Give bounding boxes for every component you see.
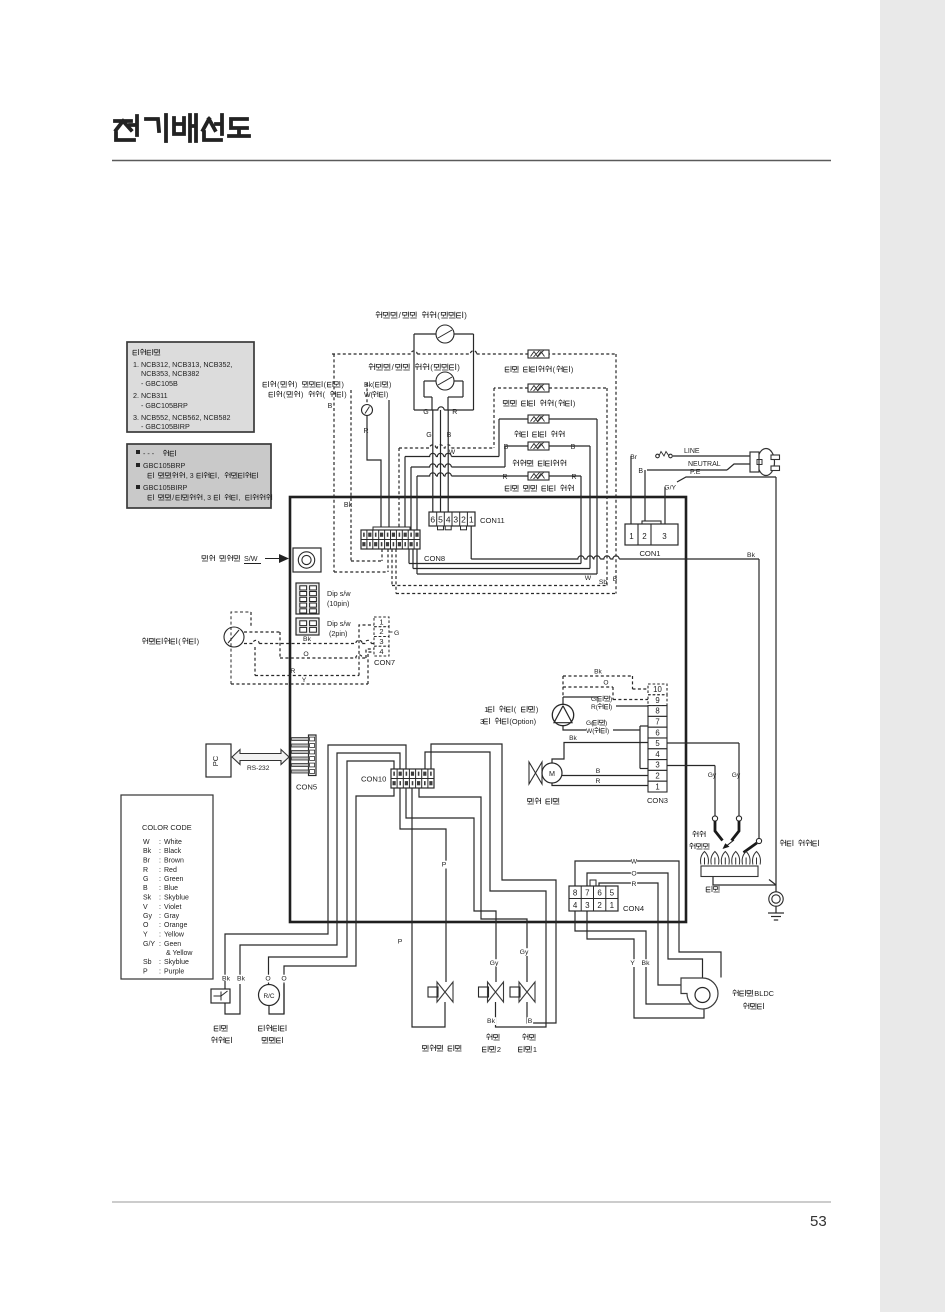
svg-text:G/Y: G/Y (664, 485, 676, 492)
svg-text:Dip s/w: Dip s/w (327, 619, 351, 628)
svg-text:): ) (573, 399, 575, 408)
svg-text:Violet: Violet (164, 904, 181, 911)
svg-text:Gy: Gy (143, 913, 152, 920)
svg-text:S/W: S/W (244, 554, 258, 563)
svg-text:4: 4 (446, 515, 451, 525)
svg-text:Br: Br (630, 454, 638, 461)
svg-text:(Option): (Option) (509, 717, 536, 726)
svg-text:10: 10 (653, 685, 662, 694)
svg-text:1: 1 (469, 515, 474, 525)
svg-text:Gy: Gy (490, 960, 499, 967)
svg-text:3: 3 (453, 515, 458, 525)
svg-text:Sk: Sk (143, 895, 152, 902)
svg-text:Bk: Bk (303, 636, 312, 643)
svg-text:B: B (143, 885, 148, 892)
svg-text:NCB353, NCB382: NCB353, NCB382 (141, 369, 199, 378)
svg-text:2: 2 (655, 772, 659, 781)
svg-text:GBC105BRP: GBC105BRP (143, 461, 186, 470)
svg-text:): ) (344, 390, 346, 399)
svg-text:- - -: - - - (143, 449, 155, 458)
svg-text:3. NCB552, NCB562, NCB582: 3. NCB552, NCB562, NCB582 (133, 413, 230, 422)
svg-text:Orange: Orange (164, 922, 187, 929)
svg-text:- GBC105BIRP: - GBC105BIRP (141, 422, 190, 431)
svg-text:9: 9 (655, 696, 659, 705)
svg-text:3: 3 (585, 901, 590, 910)
svg-text:P: P (442, 862, 447, 869)
svg-text:): ) (386, 392, 388, 399)
svg-text:Bk: Bk (487, 1018, 496, 1025)
svg-text:P.E: P.E (690, 469, 701, 476)
svg-text::: : (159, 904, 161, 911)
svg-text:(2pin): (2pin) (329, 629, 347, 638)
svg-text:/: / (172, 495, 174, 502)
svg-text:1: 1 (629, 532, 634, 541)
svg-text:): ) (571, 365, 573, 374)
svg-text:P: P (143, 969, 148, 976)
svg-text::: : (159, 913, 161, 920)
svg-text:CON10: CON10 (361, 775, 386, 784)
svg-text:): ) (295, 380, 297, 389)
svg-text:R: R (291, 668, 296, 675)
svg-text:Gray: Gray (164, 913, 180, 920)
svg-text:6: 6 (597, 889, 602, 898)
svg-text:,: , (238, 495, 240, 502)
svg-text:O: O (281, 976, 286, 983)
svg-text:- GBC105BRP: - GBC105BRP (141, 401, 188, 410)
svg-text:5: 5 (655, 739, 660, 748)
svg-text:Brown: Brown (164, 858, 184, 865)
svg-text:B: B (504, 444, 509, 451)
svg-text:2. NCB311: 2. NCB311 (133, 391, 168, 400)
svg-text:COLOR CODE: COLOR CODE (142, 823, 192, 832)
svg-text:BLDC: BLDC (754, 989, 774, 998)
svg-text:Y: Y (630, 960, 635, 967)
svg-text:B: B (528, 1018, 533, 1025)
svg-text:B: B (613, 576, 618, 583)
svg-text:NEUTRAL: NEUTRAL (688, 461, 721, 468)
svg-text:Green: Green (164, 876, 184, 883)
svg-text:W: W (449, 449, 456, 456)
svg-text:G: G (394, 630, 399, 637)
svg-text:5: 5 (438, 515, 443, 525)
svg-text:1: 1 (484, 705, 488, 714)
svg-text:Bk: Bk (143, 848, 152, 855)
svg-text:Y: Y (302, 677, 307, 684)
svg-text::: : (159, 876, 161, 883)
svg-text:R: R (596, 778, 601, 785)
svg-text:& Yellow: & Yellow (166, 950, 193, 957)
svg-text:G: G (426, 432, 431, 439)
svg-text:R(: R( (591, 704, 599, 711)
svg-text:Gy: Gy (520, 949, 529, 956)
svg-text:B: B (638, 468, 643, 475)
svg-text:): ) (197, 637, 199, 646)
svg-text:3: 3 (379, 637, 383, 646)
svg-text:1: 1 (533, 1045, 537, 1054)
svg-text:Bk: Bk (642, 960, 651, 967)
svg-text:4: 4 (655, 750, 660, 759)
svg-text:): ) (389, 382, 391, 389)
svg-text:4: 4 (379, 647, 383, 656)
svg-text:Skyblue: Skyblue (164, 895, 189, 902)
svg-text:7: 7 (585, 889, 590, 898)
svg-text:Br: Br (143, 858, 151, 865)
svg-text:W: W (585, 575, 592, 582)
svg-text:Bk: Bk (594, 669, 602, 676)
svg-text:R: R (571, 474, 576, 481)
svg-text:, 3: , 3 (203, 495, 211, 502)
svg-text:CON4: CON4 (623, 904, 644, 913)
svg-text:Gy: Gy (732, 772, 741, 779)
svg-text:R/C: R/C (263, 993, 274, 1000)
svg-text:G/Y: G/Y (143, 941, 155, 948)
svg-text:CON1: CON1 (639, 549, 660, 558)
svg-text:): ) (536, 705, 538, 714)
svg-text:R: R (363, 428, 368, 435)
svg-text::: : (159, 895, 161, 902)
svg-text:Black: Black (164, 848, 182, 855)
svg-text:PC: PC (211, 755, 220, 766)
svg-text::: : (159, 969, 161, 976)
svg-text:,: , (217, 473, 219, 480)
svg-text:CON3: CON3 (647, 796, 668, 805)
svg-text:M: M (549, 769, 555, 778)
svg-text:): ) (342, 380, 344, 389)
svg-text:): ) (607, 728, 609, 735)
svg-text:RS-232: RS-232 (247, 765, 270, 772)
svg-text:3: 3 (655, 761, 659, 770)
svg-text:Sb: Sb (599, 579, 608, 586)
svg-text:B: B (447, 432, 452, 439)
svg-text:G: G (143, 876, 148, 883)
svg-text:G: G (423, 409, 428, 416)
svg-text:8: 8 (655, 707, 659, 716)
svg-text::: : (159, 867, 161, 874)
svg-text:B: B (596, 768, 601, 775)
svg-text:Bk: Bk (222, 976, 231, 983)
svg-text:R: R (502, 474, 507, 481)
svg-text:Y: Y (143, 932, 148, 939)
svg-text:O: O (143, 922, 149, 929)
svg-text:R: R (143, 867, 148, 874)
svg-text:2: 2 (597, 901, 602, 910)
svg-text:): ) (610, 696, 612, 703)
svg-text:2: 2 (379, 627, 383, 636)
svg-text:Red: Red (164, 867, 177, 874)
svg-text:O: O (265, 976, 270, 983)
svg-text:R: R (452, 409, 457, 416)
svg-text:(: ( (430, 363, 433, 372)
svg-text:White: White (164, 839, 182, 846)
svg-text:6: 6 (655, 728, 659, 737)
svg-text:): ) (610, 704, 612, 711)
svg-text:- GBC105B: - GBC105B (141, 379, 178, 388)
svg-text:): ) (301, 390, 303, 399)
svg-text:3: 3 (662, 532, 667, 541)
svg-text:W(: W( (586, 728, 595, 735)
svg-text:W: W (143, 839, 150, 846)
svg-text:Geen: Geen (164, 941, 181, 948)
svg-text:): ) (457, 363, 460, 372)
svg-text:(: ( (437, 311, 440, 320)
svg-text:5: 5 (610, 889, 615, 898)
svg-text:O: O (603, 680, 608, 687)
svg-text:1: 1 (379, 618, 383, 627)
svg-text:O: O (631, 871, 636, 878)
svg-text:2: 2 (461, 515, 466, 525)
svg-text:Gy: Gy (708, 772, 717, 779)
svg-text:GBC105BIRP: GBC105BIRP (143, 483, 188, 492)
svg-text::: : (159, 839, 161, 846)
svg-text:CON11: CON11 (480, 516, 505, 525)
svg-text:B: B (571, 444, 576, 451)
svg-text:CON8: CON8 (424, 554, 445, 563)
svg-text:Bk: Bk (569, 735, 577, 742)
svg-text:Dip s/w: Dip s/w (327, 589, 351, 598)
svg-text::: : (159, 885, 161, 892)
svg-text:Bk(: Bk( (364, 382, 375, 389)
svg-text:Yellow: Yellow (164, 932, 185, 939)
svg-text:LINE: LINE (684, 448, 700, 455)
svg-text:P: P (398, 939, 403, 946)
svg-text:4: 4 (573, 901, 578, 910)
svg-text:O: O (303, 651, 308, 658)
svg-text:1: 1 (610, 901, 615, 910)
svg-text:W: W (631, 859, 638, 866)
svg-text:Blue: Blue (164, 885, 178, 892)
svg-text:R: R (632, 881, 637, 888)
svg-text::: : (159, 858, 161, 865)
svg-text:1. NCB312, NCB313, NCB352,: 1. NCB312, NCB313, NCB352, (133, 360, 232, 369)
svg-text::: : (159, 922, 161, 929)
svg-text:7: 7 (655, 718, 659, 727)
svg-text:Bk: Bk (237, 976, 246, 983)
svg-text:CON5: CON5 (296, 783, 317, 792)
svg-text:CON7: CON7 (374, 658, 395, 667)
svg-text:8: 8 (573, 889, 578, 898)
svg-text:(10pin): (10pin) (327, 599, 349, 608)
svg-text:Skyblue: Skyblue (164, 959, 189, 966)
svg-text:): ) (605, 720, 607, 727)
svg-text:Bk: Bk (747, 552, 756, 559)
svg-text::: : (159, 959, 161, 966)
svg-text:2: 2 (497, 1045, 501, 1054)
svg-text:W(: W( (364, 392, 374, 399)
svg-text:V: V (143, 904, 148, 911)
svg-text::: : (159, 848, 161, 855)
svg-text:Purple: Purple (164, 969, 184, 976)
svg-text:53: 53 (810, 1213, 827, 1230)
svg-text::: : (159, 932, 161, 939)
svg-text:2: 2 (642, 532, 647, 541)
svg-text:B: B (328, 403, 333, 410)
svg-text:1: 1 (655, 782, 659, 791)
svg-text:6: 6 (430, 515, 435, 525)
svg-text::: : (159, 941, 161, 948)
svg-text:, 3: , 3 (186, 473, 194, 480)
svg-text:): ) (464, 311, 467, 320)
svg-text:Sb: Sb (143, 959, 152, 966)
